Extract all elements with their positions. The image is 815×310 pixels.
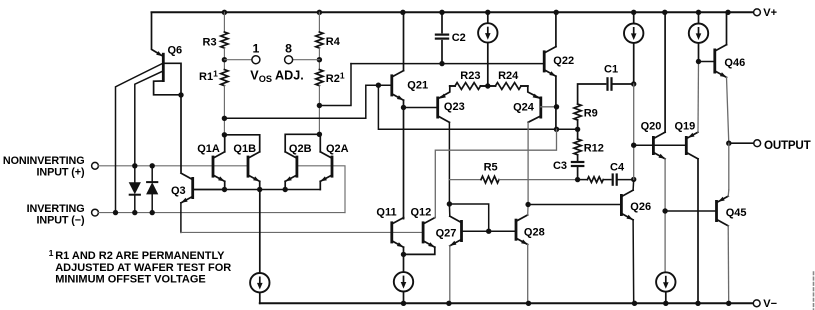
node C4-Q26 collector: [631, 177, 636, 182]
wire Q26 collector: [632, 179, 635, 190]
svg-text:INPUT (+): INPUT (+): [37, 166, 85, 178]
pin 8 terminal: [285, 41, 293, 63]
transistor Q26: [621, 190, 651, 220]
svg-text:Q28: Q28: [524, 227, 545, 239]
wire R3 top lead: [223, 12, 225, 32]
svg-text:C1: C1: [604, 63, 618, 75]
wire emitters to current source I5: [403, 254, 405, 272]
node R2-Q22 link: [317, 103, 322, 108]
svg-text:Q20: Q20: [641, 120, 662, 132]
node I6 rail: [663, 301, 668, 306]
wire I3 column: [633, 84, 635, 179]
node Q1A emitter: [222, 187, 227, 192]
transistor Q20: [641, 120, 666, 159]
node Q46 base branch: [696, 59, 701, 64]
svg-text:8: 8: [285, 41, 292, 55]
current source I1 tail: [250, 273, 269, 292]
wire Q45 base: [665, 210, 716, 212]
wire Q19 emitter column: [697, 62, 700, 133]
transistor Q1B: [233, 143, 259, 181]
wire mirror base rail: [181, 231, 423, 233]
node pin1 tap: [222, 57, 227, 62]
wire Q21 emitter column: [403, 100, 405, 218]
svg-text:Q26: Q26: [630, 201, 651, 213]
inverting input terminal: [27, 203, 99, 227]
resistor R9: [574, 104, 598, 120]
node Q27 emitter rail: [446, 301, 451, 306]
wire Q27 collector: [448, 204, 450, 216]
wire Q11 collector: [403, 218, 405, 219]
wire Q2 base link: [297, 166, 345, 213]
transistor Q27: [436, 216, 462, 246]
svg-text:1: 1: [252, 41, 259, 55]
capacitor C4: [610, 161, 634, 186]
transistor Q21: [392, 71, 428, 101]
wire I5 to V-: [403, 292, 405, 304]
node Q1B emitter: [257, 187, 262, 192]
resistor R2: [316, 70, 345, 86]
V- terminal: [753, 298, 777, 310]
svg-text:Q2B: Q2B: [289, 143, 312, 155]
transistor Q45: [717, 196, 747, 226]
svg-text:Q22: Q22: [553, 55, 574, 67]
page edge artifact: [813, 272, 815, 310]
OUTPUT terminal: [754, 139, 811, 152]
wire Q24 collector column: [527, 122, 529, 204]
wire Q11 emitter: [403, 247, 405, 254]
wire Q1B emitter: [259, 181, 261, 189]
svg-text:Q2A: Q2A: [326, 143, 349, 155]
node I5 rail: [401, 301, 406, 306]
svg-text:C4: C4: [610, 161, 625, 173]
wire output lead: [729, 142, 754, 144]
wire Q21 collector to V+: [403, 12, 405, 70]
wire Q28 collector: [527, 205, 529, 215]
node C2 top: [439, 10, 444, 15]
transistor Q12: [411, 207, 435, 248]
wire Q19 collector to V-: [697, 159, 699, 303]
node Q27-Q28 base: [486, 229, 491, 234]
resistor R4: [316, 32, 341, 48]
wire Q1B collector: [224, 135, 259, 152]
node Q19 collector rail: [695, 301, 700, 306]
node R9-R12 junction: [575, 127, 580, 132]
wire Q2B collector: [285, 134, 319, 152]
resistor R24: [488, 70, 528, 89]
svg-text:Q1B: Q1B: [233, 143, 256, 155]
svg-text:Q11: Q11: [376, 207, 396, 219]
svg-text:V−: V−: [763, 298, 777, 310]
wire Q6 collector 1 to inverting rail: [116, 64, 163, 213]
wire Q12 emitter: [404, 247, 435, 254]
svg-text:Q24: Q24: [513, 102, 535, 114]
wire output to Q45 emitter: [728, 143, 730, 190]
node R4 top: [317, 10, 322, 15]
node Q2 collectors: [317, 132, 322, 137]
wire R4 to R2: [318, 48, 320, 70]
wire R3 to R1: [223, 48, 225, 70]
current source I6: [656, 272, 675, 291]
node Q6 collector-base: [178, 92, 183, 97]
svg-text:Q3: Q3: [171, 185, 186, 197]
wire Q22 collector to V+: [555, 12, 557, 46]
svg-text:R5: R5: [484, 161, 498, 173]
wire Q28 emitter to V-: [527, 245, 529, 304]
svg-text:Q21: Q21: [407, 79, 428, 91]
Vos adjust label: [250, 69, 303, 85]
node Q28 collector-Q26 base: [525, 202, 530, 207]
transistor Q46: [715, 45, 745, 78]
wire I6 to V-: [665, 292, 667, 304]
wire Q3 emitter to mirror base rail: [180, 203, 182, 233]
wire Q26 emitter to V-: [632, 220, 635, 303]
current source I4: [689, 12, 708, 61]
wire Q28 base: [489, 230, 516, 232]
node Q22 emitter junction: [554, 127, 559, 132]
wire Q21 base branch down: [378, 85, 577, 129]
svg-text:NONINVERTING: NONINVERTING: [3, 155, 85, 167]
svg-text:INVERTING: INVERTING: [27, 203, 85, 215]
svg-text:Q6: Q6: [168, 45, 183, 57]
svg-text:Q12: Q12: [411, 207, 432, 219]
wire Q1A collector: [224, 135, 226, 152]
node Q24 base: [554, 104, 559, 109]
diode D1: [129, 166, 141, 213]
svg-text:C3: C3: [553, 160, 567, 172]
wire Q23 base: [404, 107, 438, 109]
transistor Q24: [513, 86, 541, 122]
transistor Q2B: [285, 143, 311, 181]
node output: [726, 141, 731, 146]
footnote R1 R2 adjustment: [49, 248, 232, 286]
wire Q19-Q20 base rail: [634, 144, 687, 146]
wire Q27 base: [462, 230, 489, 232]
node inverting-D2: [150, 210, 155, 215]
wire Q6 collector 2 to noninverting rail: [135, 71, 162, 165]
resistor R12: [574, 129, 604, 155]
svg-text:INPUT (−): INPUT (−): [37, 214, 85, 226]
wire Q45 emitter link: [727, 190, 730, 196]
wire V+ top rail: [152, 11, 754, 13]
node Q21 base branch: [376, 83, 381, 88]
transistor Q19: [675, 120, 699, 159]
wire Q12 collector: [434, 216, 437, 219]
node Q22 collector rail: [554, 10, 559, 15]
V+ terminal: [754, 7, 777, 19]
resistor R3: [203, 32, 228, 48]
node Q28 emitter rail: [526, 301, 531, 306]
node C1 right: [631, 81, 636, 86]
node Q27 collector-base bridge: [447, 201, 452, 206]
wire Q24 base: [541, 106, 557, 108]
wire pin1 lead: [224, 59, 252, 61]
node Q46 collector rail: [725, 10, 730, 15]
node noninverting-D1: [132, 163, 137, 168]
node noninverting-D2: [150, 163, 155, 168]
current source I3: [624, 12, 643, 84]
transistor Q23: [438, 86, 465, 122]
svg-text:R24: R24: [498, 70, 519, 82]
node I3 rail: [631, 10, 636, 15]
node R23-R24 junction: [485, 83, 490, 88]
wire pin8 lead: [292, 59, 319, 61]
wire V- bottom rail: [260, 302, 753, 304]
wire Q22 emitter to Q12 collector link: [435, 129, 556, 217]
svg-text:Q1A: Q1A: [197, 143, 220, 155]
capacitor C1: [578, 63, 634, 104]
wire Q22 emitter column: [555, 76, 557, 129]
resistor R6 feedforward: [578, 177, 611, 183]
svg-text:Q45: Q45: [726, 207, 747, 219]
wire Q46 collector to V+: [726, 12, 728, 44]
wire Q1A emitter: [224, 181, 226, 189]
wire Q27 bridge: [449, 204, 488, 231]
current source I5: [394, 272, 413, 291]
node Q20 base branch: [631, 143, 636, 148]
node Q1 collectors: [222, 132, 227, 137]
wire inverting rail: [99, 212, 346, 214]
wire Q2A emitter: [319, 181, 321, 189]
node Q45 base branch: [662, 208, 667, 213]
svg-text:OUTPUT: OUTPUT: [764, 139, 811, 152]
diode D2: [146, 166, 158, 213]
node R3 top: [222, 10, 227, 15]
node Q2B emitter: [283, 187, 288, 192]
wire R4 top lead: [318, 12, 320, 32]
wire R2 bottom lead: [318, 86, 320, 135]
wire Q3 base to emitter rail: [193, 189, 225, 191]
node Q21 collector rail: [400, 10, 405, 15]
svg-text:Q46: Q46: [724, 57, 745, 69]
node Q23 base branch: [401, 105, 406, 110]
resistor R5: [449, 161, 577, 183]
node C2 bottom: [439, 61, 444, 66]
transistor Q2A: [320, 143, 348, 181]
capacitor C2: [435, 12, 466, 63]
wire Q46 base: [699, 61, 715, 63]
wire R1 node to Q21 base: [224, 85, 390, 118]
wire Q23 collector column: [448, 122, 450, 204]
wire Q46 emitter to output: [727, 77, 729, 143]
wire Q20 emitter column: [664, 159, 666, 272]
svg-text:VOS ADJ.: VOS ADJ.: [250, 69, 303, 85]
wire current source to V-: [259, 293, 261, 304]
current source I2: [478, 12, 497, 86]
resistor R1: [199, 69, 228, 86]
svg-text:1R1 AND R2 ARE PERMANENTLY: 1R1 AND R2 ARE PERMANENTLY: [49, 248, 226, 262]
wire emitter rail: [193, 189, 321, 191]
node Q11-Q12 emitters: [401, 252, 406, 257]
node I2 rail: [485, 10, 490, 15]
svg-text:R12: R12: [584, 142, 604, 154]
node Q26 emitter rail: [632, 301, 637, 306]
node Q45 collector rail: [726, 301, 731, 306]
wire R1 bottom lead: [223, 86, 225, 135]
node Q20 collector rail: [662, 10, 667, 15]
svg-text:R9: R9: [584, 107, 598, 119]
transistor Q1A: [197, 143, 225, 181]
wire tail to current source: [259, 190, 261, 273]
wire Q20 collector to V+: [664, 12, 666, 132]
node pin8 tap: [317, 57, 322, 62]
pin 1 terminal: [252, 41, 260, 63]
node inverting-D1: [132, 210, 137, 215]
wire R2 node to Q22 base: [319, 64, 544, 106]
capacitor C3: [553, 155, 584, 180]
transistor Q11: [376, 207, 403, 248]
wire Q26 base: [528, 204, 621, 206]
wire noninverting rail: [99, 165, 249, 167]
transistor Q3: [171, 173, 193, 203]
svg-text:R4: R4: [326, 36, 341, 48]
svg-text:V+: V+: [763, 7, 777, 19]
resistor R23: [450, 70, 488, 89]
svg-text:ADJUSTED AT WAFER TEST FOR: ADJUSTED AT WAFER TEST FOR: [55, 262, 231, 274]
svg-text:MINIMUM OFFSET VOLTAGE: MINIMUM OFFSET VOLTAGE: [55, 274, 206, 286]
noninverting input terminal: [3, 155, 98, 179]
wire R9 to node: [577, 120, 579, 129]
svg-text:R3: R3: [203, 36, 217, 48]
svg-text:C2: C2: [452, 32, 466, 44]
transistor Q28: [516, 215, 545, 245]
node I4 rail: [696, 10, 701, 15]
node C3 bottom junction: [575, 177, 580, 182]
svg-text:Q23: Q23: [444, 101, 465, 113]
node inverting-Q6: [113, 210, 118, 215]
svg-text:Q27: Q27: [436, 227, 457, 239]
svg-text:Q19: Q19: [675, 120, 696, 132]
wire Q2B emitter: [284, 181, 286, 189]
node R1-Q21 link: [222, 116, 227, 121]
wire Q2A collector: [319, 134, 321, 152]
transistor Q22: [544, 47, 574, 77]
wire Q27 emitter to V-: [449, 246, 451, 303]
wire Q6 to Q3 collector: [180, 95, 182, 172]
wire Q45 collector to V-: [727, 226, 730, 303]
svg-text:R23: R23: [460, 70, 480, 82]
transistor Q6: [152, 12, 183, 95]
